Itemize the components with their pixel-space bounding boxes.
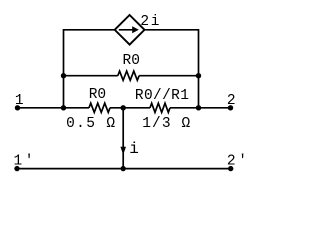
svg-text:0.5 Ω: 0.5 Ω: [66, 116, 115, 132]
current arrow i (down): [120, 147, 126, 155]
wire middle vertical (current branch): [122, 108, 124, 169]
wire left vertical: [63, 29, 65, 108]
svg-text:i: i: [129, 140, 139, 158]
terminal 1 dot: [15, 105, 20, 110]
junction bottom middle: [121, 166, 126, 171]
junction middle main: [121, 105, 126, 110]
wire middle loop left: [64, 75, 118, 77]
resistor R0 (parallel loop): [118, 71, 139, 80]
svg-text:R0: R0: [89, 87, 106, 103]
wire bottom rail: [17, 168, 231, 170]
wire top-left horizontal: [64, 29, 115, 31]
wire middle loop right: [139, 75, 198, 77]
svg-text:2i: 2i: [140, 14, 159, 30]
wire between resistors: [110, 107, 150, 109]
junction left main: [61, 105, 66, 110]
arrow inside source: [119, 29, 133, 31]
wire top-right horizontal: [145, 29, 198, 31]
svg-text:R0//R1: R0//R1: [135, 88, 189, 104]
resistor R0//R1 (1/3 ohm): [150, 103, 170, 112]
wire terminal 1 lead: [18, 107, 90, 109]
svg-text:1/3 Ω: 1/3 Ω: [142, 116, 190, 132]
resistor R0 (series 0.5 ohm): [89, 103, 110, 112]
wire right vertical: [198, 29, 200, 108]
junction right loop: [196, 73, 201, 78]
svg-text:1: 1: [15, 93, 24, 109]
wire terminal 2 lead: [170, 107, 231, 109]
dependent source U1 (diamond 2i): [115, 15, 145, 45]
svg-text:2: 2: [227, 93, 236, 109]
junction left loop: [61, 73, 66, 78]
junction right main: [196, 105, 201, 110]
terminal 2' dot: [228, 166, 233, 171]
terminal 1' dot: [14, 166, 19, 171]
svg-text:R0: R0: [123, 53, 140, 69]
terminal 2 dot: [228, 105, 233, 110]
